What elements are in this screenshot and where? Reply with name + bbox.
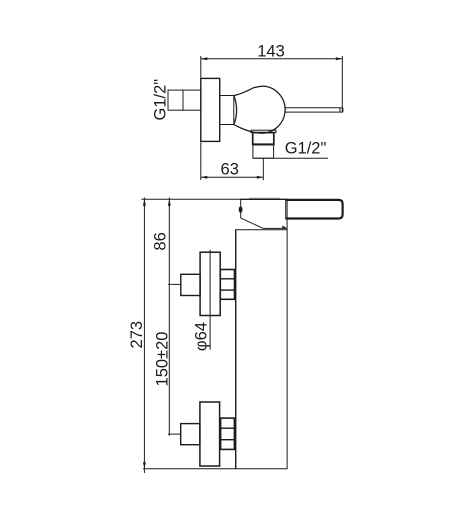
- extension line below flange: [200, 142, 202, 180]
- cover bottom edge: [263, 227, 287, 229]
- lower stub: [181, 424, 200, 445]
- body right edge: [286, 200, 288, 469]
- outlet threaded section: [253, 133, 274, 145]
- svg-text:G1/2": G1/2": [285, 140, 327, 158]
- outlet lower section: [253, 145, 274, 158]
- dimension 150+-20 line: [168, 284, 170, 435]
- extension line right (handle end): [341, 56, 343, 112]
- svg-text:86: 86: [152, 232, 170, 250]
- extension line outlet centre: [262, 158, 264, 180]
- dimension 273 line: [143, 198, 146, 474]
- lever handle (front view): [286, 199, 343, 219]
- extension line left (wall plane): [200, 56, 202, 78]
- cover corner wedge: [282, 225, 287, 228]
- lower hex nut: [221, 418, 235, 449]
- wall flange (side view): [201, 78, 220, 141]
- svg-text:G1/2": G1/2": [152, 79, 170, 121]
- upper flange (rosette): [200, 252, 220, 315]
- upper stub: [181, 274, 200, 295]
- outlet collar: [251, 130, 276, 132]
- svg-text:143: 143: [257, 42, 285, 60]
- wall nipple: [168, 90, 201, 110]
- svg-text:273: 273: [128, 321, 146, 349]
- body left edge: [235, 229, 237, 468]
- dimension 63 line: [201, 176, 263, 179]
- svg-text:φ64: φ64: [192, 322, 210, 351]
- dimension 86 line: [168, 198, 171, 285]
- leader line G1/2 outlet: [253, 157, 328, 159]
- dimension 143 line: [201, 57, 342, 60]
- neck connector: [220, 96, 234, 125]
- lower flange (rosette): [200, 402, 220, 466]
- extension line upper connection centre: [168, 283, 181, 285]
- set screw dot: [239, 206, 243, 213]
- bottom extension line / body base: [143, 468, 288, 470]
- upper hex nut: [220, 270, 234, 300]
- cover diagonal: [241, 218, 264, 228]
- cartridge cover top: [240, 198, 287, 200]
- cartridge cover left edge: [240, 199, 242, 218]
- outlet divider: [253, 143, 274, 145]
- valve body sphere: [234, 86, 285, 133]
- svg-text:150±20: 150±20: [153, 332, 171, 387]
- svg-text:63: 63: [221, 160, 239, 178]
- extension line lower connection centre: [168, 433, 181, 435]
- phi64 leader line: [209, 250, 211, 350]
- cover top arc bump: [249, 197, 280, 199]
- top extension line (front view): [141, 198, 240, 200]
- handle rod (side view): [285, 108, 343, 112]
- body top edge: [236, 229, 287, 231]
